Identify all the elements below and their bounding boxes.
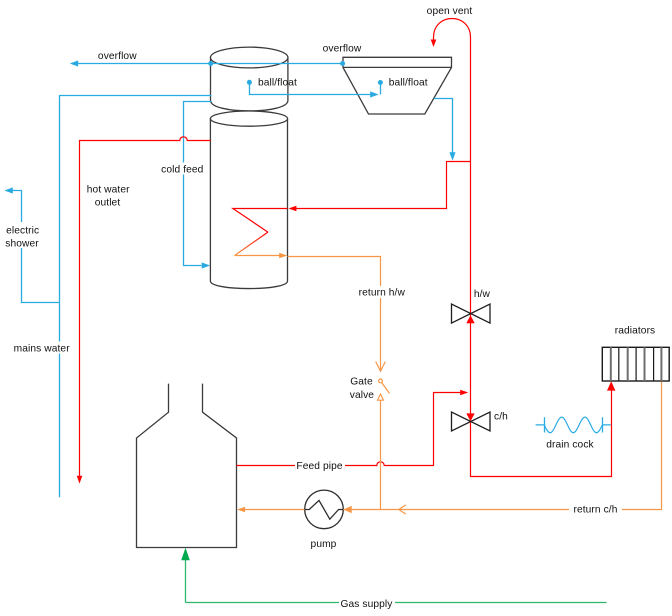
coil gradient segment (235, 232, 268, 255)
svg-text:shower: shower (5, 239, 39, 250)
arrow up into radiator (607, 381, 615, 390)
svg-text:Gas supply: Gas supply (341, 599, 394, 610)
radiators symbol (602, 347, 669, 381)
valve c/h bowtie (452, 412, 491, 431)
label: mains water (12, 342, 73, 355)
wire: trapezoid outflow to vent pipe (434, 99, 456, 161)
wire: cold feed from cistern to cylinder (184, 102, 212, 269)
svg-text:return c/h: return c/h (573, 504, 617, 515)
label: return c/h (569, 503, 622, 515)
wire: main red riser through valves down to radiator loop (471, 162, 612, 477)
wire: open vent pipe arc with down arrow (431, 19, 471, 162)
svg-text:overflow: overflow (323, 43, 362, 54)
svg-text:cold feed: cold feed (161, 164, 203, 175)
svg-text:drain cock: drain cock (546, 440, 594, 451)
label: return h/w (356, 286, 408, 298)
svg-text:radiators: radiators (615, 326, 656, 337)
wire: pump line orange from boiler to radiator (237, 382, 662, 514)
coil inside cylinder (red part) (233, 209, 288, 233)
wire: return h/w lower segment (380, 400, 382, 509)
svg-text:valve: valve (350, 390, 375, 401)
wire: return h/w orange from coil down to pump line (288, 257, 381, 372)
wire: feed pipe from boiler with bump and right arrow into riser (237, 390, 469, 466)
svg-text:h/w: h/w (474, 289, 491, 300)
svg-text:outlet: outlet (95, 197, 121, 208)
wire: vent step to cylinder coil feed (288, 162, 470, 212)
svg-text:hot water: hot water (87, 184, 130, 195)
node: cyan dot on trapezoid rim (340, 61, 345, 66)
svg-text:pump: pump (311, 539, 337, 550)
svg-text:ball/float: ball/float (258, 78, 297, 89)
svg-text:return h/w: return h/w (359, 287, 406, 298)
gate valve symbol (switch style) (376, 362, 390, 401)
label: electric shower (3, 222, 43, 250)
label: Feed pipe (295, 460, 345, 472)
svg-text:Feed pipe: Feed pipe (296, 461, 342, 472)
svg-text:ball/float: ball/float (389, 78, 428, 89)
valve h/w bowtie (452, 304, 491, 323)
node: ball/float dot in trapezoid (378, 80, 383, 85)
wire: ball/float link cistern to trapezoid (250, 84, 381, 97)
tank: cold water cistern body (211, 47, 288, 111)
label: cold feed (160, 163, 205, 176)
node: cyan dot on cistern edge (208, 61, 213, 66)
svg-text:mains water: mains water (14, 344, 71, 355)
node: ball/float dot in cistern (247, 80, 252, 85)
wire: gas supply green with up arrow into boiler (181, 548, 606, 603)
svg-text:open vent: open vent (427, 6, 473, 17)
svg-text:electric: electric (6, 225, 39, 236)
coil orange outlet with right arrow (235, 253, 288, 258)
boiler (137, 384, 237, 548)
drain cock symbol (536, 417, 611, 433)
tank: feed and expansion cistern (trapezoid) (343, 57, 452, 114)
wire: cyan overflow line cistern to trapezoid with left arrow (70, 60, 343, 66)
svg-text:c/h: c/h (494, 412, 508, 423)
label: Gas supply (339, 598, 395, 610)
pump circle with impeller zigzag (305, 490, 344, 529)
svg-text:overflow: overflow (98, 51, 137, 62)
label: open vent (425, 4, 475, 17)
wire: mains water riser (60, 96, 212, 498)
wire: electric shower branch (4, 187, 59, 302)
tank: hot water cylinder (210, 111, 287, 289)
svg-text:Gate: Gate (350, 377, 373, 388)
wire: hot water outlet red with crossover bump and down arrow (77, 137, 211, 484)
